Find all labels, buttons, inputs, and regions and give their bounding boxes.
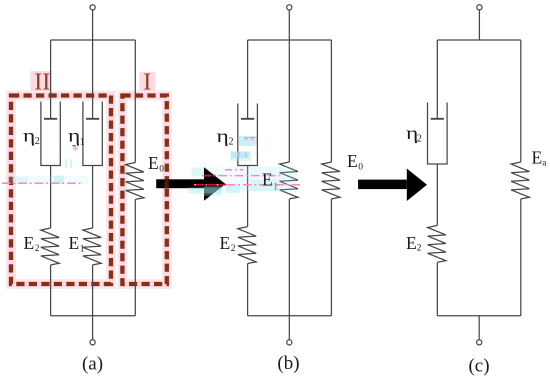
wire: below spring Ea (c) [520,199,522,316]
wire: below spring E1 (a) [92,265,94,316]
svg-text:2: 2 [35,136,40,147]
svg-text:E: E [532,148,543,168]
node: bottom terminal (a) [90,340,95,345]
svg-text:(b): (b) [277,353,299,374]
wire: below dashpot eta1 (a) [92,166,94,229]
wire: below spring E0 (a) [134,199,136,315]
wire: bottom terminal stem (b) [288,316,290,340]
spring E0 (b) [322,162,340,199]
dashpot eta2 (b): cylinder [238,104,258,166]
wire: below spring E2 (b) [247,264,249,316]
wire: top rail (b) [248,39,332,41]
dashpot eta2 (b): piston [241,118,254,120]
wire: left branch rod top (b) [247,40,249,119]
svg-text:E: E [262,170,273,190]
label E2 (b) [220,233,236,254]
wire: below spring E1 (b) [288,199,290,316]
wire: bottom rail (c) [437,315,521,317]
svg-text:II: II [34,70,50,96]
node: top terminal (b) [287,5,292,10]
wire: top terminal stem (a) [92,10,94,119]
arrow (b)->(c) [358,169,427,202]
svg-text:0: 0 [358,163,363,173]
dashpot eta1 (a): cylinder [83,102,102,166]
annotation artifact: cyan patches in dashpot (b) [231,136,257,158]
label E2 (a) [24,233,40,254]
spring E0 (a) [126,163,144,200]
svg-text:1: 1 [273,183,278,193]
wire: top rail (a) [51,39,136,41]
wire: below spring E2 (c) [436,262,438,316]
annotation artifact: red dashes over arrow 1 [196,176,226,185]
spring E1 (b) [280,162,298,199]
wire: bottom terminal stem (c) [478,316,480,340]
wire: below spring E0 (b) [330,199,332,316]
label E2 (c) [406,233,422,254]
annotation artifact: pink T mark (a) [73,145,79,151]
svg-text:2: 2 [231,244,236,254]
svg-text:2: 2 [417,244,422,254]
label eta2 (b) [217,126,234,148]
wire: bottom rail (a) [51,315,136,317]
wire: bottom terminal stem (a) [92,316,94,340]
spring E2 (a) [41,228,59,265]
svg-text:η: η [68,126,80,146]
dashpot eta1 (a): piston [86,118,99,120]
annotation artifact: big cyan band (b) [188,151,296,196]
wire: left branch rod top (c) [436,40,438,119]
wire: top terminal stem (b) [288,10,290,162]
node: top terminal (a) [90,5,95,10]
wire: right branch rod top (b) [330,40,332,162]
arrow (a)->(b) [156,167,225,201]
label eta2 (c) [406,123,422,145]
svg-text:(c): (c) [468,356,489,377]
wire: bottom rail (b) [248,315,332,317]
label E1 (a) [69,233,85,255]
svg-text:η: η [217,126,229,146]
dashpot eta2 (a): cylinder [41,102,60,166]
dashpot eta2 (c): cylinder [428,103,448,165]
svg-text:E: E [347,151,358,171]
dashed box I [122,96,166,285]
glow of dashed box I [122,72,166,284]
wire: top rail (c) [437,39,521,41]
annotation artifact: cyan band (a) [5,160,88,185]
svg-text:2: 2 [35,244,40,254]
node: top terminal (c) [477,5,482,10]
label eta1 (a) [68,126,85,149]
annotation artifact: magenta dashed line (a) [2,182,81,184]
svg-text:E: E [69,233,80,253]
wire: below spring E2 (a) [50,265,52,316]
glow of dashed box II [11,71,111,284]
dashpot eta2 (a): piston [44,118,57,120]
label E0 (b) [347,151,363,173]
svg-text:(a): (a) [82,354,103,375]
spring E2 (b) [238,227,256,264]
wire: box I dash over arrow shaft [164,179,168,188]
spring E1 (a) [83,228,101,265]
wire: right branch rod top (c) [520,40,522,162]
svg-text:I: I [143,70,151,96]
svg-text:E: E [220,233,231,253]
label E0 (a) [148,153,164,175]
svg-text:η: η [23,126,35,146]
spring Ea (c) [511,162,529,199]
svg-text:1: 1 [80,137,85,148]
node: bottom terminal (b) [287,340,292,345]
annotation artifact: cyan band under arrow (b) [191,167,240,192]
dashpot eta2 (c): piston [431,118,444,120]
wire: left branch rod top (a) [50,40,52,119]
svg-text:E: E [148,153,159,173]
svg-text:2: 2 [229,137,234,148]
label Ea (c) [532,148,548,169]
wire: top terminal stem (c) [478,10,480,40]
label eta2 (a) [23,126,40,148]
wire: below dashpot eta2 (c) [436,164,438,225]
wire: right branch rod top (a) [134,40,136,163]
node: bottom terminal (c) [477,340,482,345]
annotation artifact: magenta marks in dashpot (b) [238,137,255,158]
svg-text:0: 0 [159,165,164,175]
svg-text:E: E [406,233,417,253]
label E1 (b) [262,170,278,193]
svg-text:1: 1 [80,245,85,255]
wire: below dashpot eta2 (a) [50,166,52,229]
annotation artifact: magenta dashed lines (b) [194,170,300,185]
svg-text:2: 2 [417,134,422,145]
wire: below dashpot eta2 (b) [247,166,249,227]
svg-text:E: E [24,233,35,253]
dashed box II [11,96,111,285]
spring E2 (c) [428,225,446,262]
